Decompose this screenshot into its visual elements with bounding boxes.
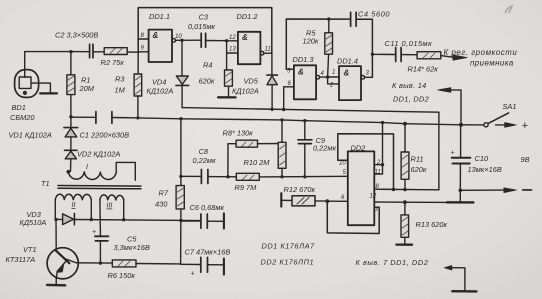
svg-text:620к: 620к <box>199 77 215 86</box>
node rail B / C9 <box>303 119 306 122</box>
rail A (common to pin14 corner) <box>182 108 439 190</box>
svg-text:+: + <box>451 150 455 157</box>
svg-text:КД102А: КД102А <box>232 87 259 96</box>
node battery minus branch <box>459 189 463 193</box>
node rail B / R3 corner <box>136 116 139 119</box>
pin labels DD1.1 <box>141 33 183 52</box>
resistor R5 <box>325 19 333 77</box>
node R1/C1/VD1 <box>69 115 72 118</box>
resistor R13 <box>396 202 412 245</box>
svg-text:9В: 9В <box>521 155 530 164</box>
node DD2 pin8 rail / rect edge <box>392 188 396 192</box>
node R13 top <box>403 200 407 204</box>
node winding III right <box>122 218 125 221</box>
capacitor C2 <box>90 44 105 58</box>
svg-text:R6 150к: R6 150к <box>108 271 136 280</box>
resistor R6 <box>112 260 180 267</box>
node R5 top <box>327 17 330 20</box>
svg-text:R3: R3 <box>115 75 125 84</box>
IC gate DD1.3 <box>284 65 320 109</box>
svg-text:С2 3,3×500В: С2 3,3×500В <box>55 31 98 40</box>
svg-text:2: 2 <box>376 160 381 166</box>
pin labels DD1.3 <box>287 69 325 88</box>
svg-text:VT1: VT1 <box>23 245 37 254</box>
capacitor C10 <box>447 125 473 203</box>
svg-text:120к: 120к <box>303 37 319 46</box>
svg-text:R8* 130к: R8* 130к <box>223 129 254 138</box>
wire to battery minus <box>460 188 531 193</box>
resistor R4 <box>218 70 236 97</box>
svg-text:VD2 КД102А: VD2 КД102А <box>77 150 120 159</box>
wire tube anode to top rail <box>25 52 71 78</box>
capacitor C3 <box>201 33 226 47</box>
svg-text:DD1 К176ЛА7: DD1 К176ЛА7 <box>262 242 316 251</box>
wire R7 column <box>180 119 182 264</box>
svg-text:III: III <box>107 203 113 210</box>
node base rail / R7 column <box>179 219 182 222</box>
IC gate DD1.4 <box>339 66 372 100</box>
node VD3 cathode / winding II right <box>90 218 93 221</box>
wire DD2 top loop pins 10-8 <box>338 134 394 190</box>
IC gate DD1.2 <box>238 32 272 64</box>
svg-text:10: 10 <box>175 34 182 40</box>
svg-text:430: 430 <box>155 200 168 209</box>
resistor R10 <box>278 120 286 177</box>
svg-text:13мк×16В: 13мк×16В <box>468 165 502 174</box>
svg-text:I: I <box>86 164 88 171</box>
wire DD1.1 feedback top border <box>138 8 272 54</box>
node C8 / R8 column <box>226 175 229 178</box>
wire DD2 pin 6 <box>327 200 348 202</box>
transistor VT1 <box>47 248 78 286</box>
svg-text:1: 1 <box>332 70 335 76</box>
transformer T1 winding I <box>68 162 135 180</box>
node R11 bottom <box>403 188 406 191</box>
switch SA1 <box>461 113 516 128</box>
node C11 tap <box>371 53 374 56</box>
node DD1.2 inputs <box>225 39 228 42</box>
svg-text:R7: R7 <box>159 189 169 198</box>
diode VD1 <box>64 117 78 150</box>
svg-text:К рег. громкости: К рег. громкости <box>444 48 518 57</box>
svg-text:С4 5600: С4 5600 <box>358 10 390 19</box>
svg-text:приемника: приемника <box>470 59 514 68</box>
resistor R2 <box>104 48 138 55</box>
svg-text:С8: С8 <box>199 147 209 156</box>
node winding I left <box>66 170 70 174</box>
svg-text:R4: R4 <box>203 61 212 70</box>
svg-text:С3: С3 <box>199 13 209 22</box>
svg-text:КТ3117А: КТ3117А <box>6 255 36 264</box>
node top rail junction <box>69 50 72 53</box>
diode VD2 <box>65 150 77 171</box>
base rail under transformer <box>55 219 200 220</box>
svg-text:VD5: VD5 <box>244 77 259 86</box>
svg-text:С10: С10 <box>475 154 489 163</box>
bottom mid rail <box>181 175 348 178</box>
svg-text:II: II <box>72 202 76 209</box>
IC DD2 <box>348 151 375 225</box>
transformer T1 core <box>58 186 141 189</box>
wire loop DD2 pin 3 <box>327 201 379 233</box>
diode VD3 <box>63 213 75 224</box>
svg-text:0,015мк: 0,015мк <box>188 22 216 31</box>
capacitor C9 <box>298 121 312 177</box>
svg-text:К выв. 14: К выв. 14 <box>392 81 427 90</box>
resistor R14 <box>417 52 467 61</box>
svg-text:R14* 62к: R14* 62к <box>408 65 439 74</box>
wire DD1.3 out to DD1.4 in <box>320 77 339 84</box>
wire top rail to C2 <box>71 51 89 53</box>
node rail B / R10 <box>280 118 283 121</box>
wire multivibrator2 feedback <box>286 19 372 77</box>
capacitor C7 <box>181 257 224 274</box>
capacitor C4 <box>351 12 357 26</box>
node bottom rail / R7 column <box>179 175 182 178</box>
wire DD2 pin 2 riser <box>374 123 382 175</box>
capacitor C11 <box>372 48 417 62</box>
svg-text:2: 2 <box>329 83 334 89</box>
node VT1 collector / C5 <box>99 261 102 264</box>
node rail B / R11 <box>403 122 407 126</box>
svg-text:&: & <box>298 68 304 77</box>
svg-text:SA1: SA1 <box>503 102 517 111</box>
svg-text:0,22мк: 0,22мк <box>313 144 336 153</box>
node battery plus <box>459 123 463 127</box>
svg-text:КД510А: КД510А <box>20 218 47 227</box>
svg-text:DD1.4: DD1.4 <box>337 57 358 66</box>
wire DD2 pin 12 row <box>374 201 447 203</box>
capacitor C5 <box>95 229 109 263</box>
svg-text:VD1 КД102А: VD1 КД102А <box>9 131 52 140</box>
svg-text:Т1: Т1 <box>41 179 50 188</box>
node rail B / R7 <box>179 117 182 120</box>
resistor R7 <box>176 186 184 209</box>
capacitor C1 <box>71 112 138 124</box>
svg-text:DD2: DD2 <box>351 144 366 153</box>
node DD1.3 out <box>326 75 329 78</box>
svg-text:VD4: VD4 <box>152 78 166 87</box>
svg-text:&: & <box>153 31 159 40</box>
diode VD4 <box>176 40 189 107</box>
wire DD1.2 input stubs <box>227 41 238 70</box>
svg-text:R2 75к: R2 75к <box>101 58 125 67</box>
transformer T1 winding III <box>100 195 124 229</box>
transformer T1 winding II <box>55 194 91 219</box>
svg-text:С6 0,68мк: С6 0,68мк <box>190 203 225 212</box>
svg-text:R12 670к: R12 670к <box>284 185 316 194</box>
diode VD5 <box>267 53 278 109</box>
svg-text:620к: 620к <box>411 165 427 174</box>
node DD2 pin2 stub <box>381 163 384 166</box>
svg-text:0,22мк: 0,22мк <box>193 156 216 165</box>
svg-text:DD1, DD2: DD1, DD2 <box>393 95 429 104</box>
svg-text:С7 47мк×16В: С7 47мк×16В <box>185 248 231 257</box>
resistor R8 <box>228 140 282 177</box>
IC gate DD1.1 <box>149 30 176 62</box>
svg-text:К выв. 7 DD1, DD2: К выв. 7 DD1, DD2 <box>356 258 429 267</box>
pin labels DD1.4 <box>329 70 370 89</box>
svg-text:&: & <box>242 33 248 42</box>
node DD1.1 out / VD4 <box>180 39 183 42</box>
wire DD2 pin 8 row <box>374 188 439 191</box>
svg-text:13: 13 <box>229 47 236 53</box>
svg-text:3,3мк×16В: 3,3мк×16В <box>114 243 150 252</box>
resistor R1 <box>67 52 75 117</box>
svg-text:КД102А: КД102А <box>147 87 174 96</box>
svg-text:С11 0,015мк: С11 0,015мк <box>385 39 433 48</box>
pin labels DD2 <box>339 160 381 213</box>
node R10 bottom <box>280 175 283 178</box>
resistor R12 <box>281 193 327 206</box>
node R12 / DD2 pin6 loop <box>325 199 329 203</box>
wire DD1.1 output <box>176 39 201 41</box>
svg-text:11: 11 <box>265 47 271 53</box>
svg-text:R13 620к: R13 620к <box>416 220 448 229</box>
svg-text:С1 2200×630В: С1 2200×630В <box>80 131 130 140</box>
wire collector row <box>77 262 113 264</box>
svg-text:12: 12 <box>229 35 236 41</box>
node VD3 anode <box>54 218 57 221</box>
svg-text:10: 10 <box>339 161 346 167</box>
resistor R11 <box>401 124 409 190</box>
wire to pin 14 arrow <box>438 88 462 125</box>
capacitor C8 <box>201 170 208 184</box>
svg-text:20М: 20М <box>79 84 95 93</box>
svg-text:DD2 К176ЛП1: DD2 К176ЛП1 <box>261 258 315 267</box>
geiger tube BD1 <box>15 70 57 98</box>
svg-text:R10 2М: R10 2М <box>244 158 271 167</box>
svg-text:DD1.3: DD1.3 <box>293 55 315 64</box>
resistor R3 <box>134 74 142 118</box>
node C9 bottom <box>303 175 306 178</box>
pin labels DD1.2 <box>229 35 271 53</box>
node VD5 on rail A <box>270 108 273 111</box>
svg-text:12: 12 <box>370 194 377 200</box>
svg-text:11: 11 <box>375 170 381 176</box>
svg-text:DD1.2: DD1.2 <box>237 12 258 21</box>
svg-text:BD1: BD1 <box>12 103 26 112</box>
capacitor C6 <box>181 213 224 228</box>
svg-text:1М: 1М <box>115 86 126 95</box>
rail B (R3 to battery node) <box>138 118 461 125</box>
svg-text:R11: R11 <box>411 155 424 164</box>
wire DD1.1 input stubs <box>138 39 149 74</box>
svg-text:+: + <box>522 120 529 132</box>
resistor R9 <box>236 173 259 180</box>
svg-text:+: + <box>92 229 96 236</box>
node rail B / DD2 pin2 <box>381 121 384 124</box>
svg-text:R9 7М: R9 7М <box>235 183 258 192</box>
svg-text:&: & <box>344 69 350 78</box>
wire VD3 node to VT1 base <box>55 219 57 248</box>
wire to pin 7 arrow <box>444 265 476 291</box>
svg-text:DD1.1: DD1.1 <box>149 12 170 21</box>
svg-text:+: + <box>191 271 195 278</box>
node DD1.3 pin6 on rail A <box>282 108 285 111</box>
svg-text:СБМ20: СБМ20 <box>10 113 35 122</box>
